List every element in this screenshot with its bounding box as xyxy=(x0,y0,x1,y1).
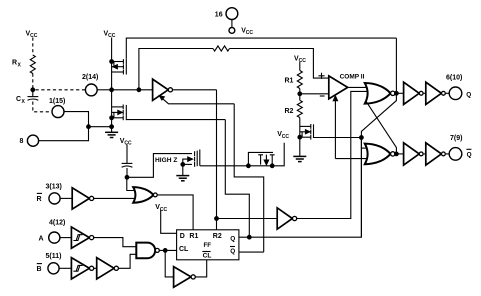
svg-text:5(11): 5(11) xyxy=(46,253,62,260)
svg-text:CC: CC xyxy=(246,30,254,36)
svg-text:8: 8 xyxy=(20,138,24,145)
svg-text:2(14): 2(14) xyxy=(82,74,98,81)
svg-text:A: A xyxy=(39,236,44,243)
svg-text:C: C xyxy=(16,96,21,103)
svg-text:1(15): 1(15) xyxy=(49,98,65,105)
svg-text:CC: CC xyxy=(30,33,38,39)
svg-text:Q: Q xyxy=(467,152,472,159)
svg-text:7(9): 7(9) xyxy=(450,135,462,142)
svg-text:6(10): 6(10) xyxy=(446,75,462,82)
svg-text:4(12): 4(12) xyxy=(49,220,65,227)
svg-text:R1: R1 xyxy=(189,233,198,240)
svg-text:CC: CC xyxy=(282,134,290,140)
svg-text:Q: Q xyxy=(230,235,235,242)
svg-text:R2: R2 xyxy=(285,108,294,115)
svg-text:R2: R2 xyxy=(213,233,222,240)
svg-text:CL: CL xyxy=(203,252,212,259)
svg-text:Q: Q xyxy=(466,92,471,99)
svg-text:3(13): 3(13) xyxy=(46,183,62,190)
svg-text:R: R xyxy=(37,196,42,203)
svg-text:COMP II: COMP II xyxy=(340,73,365,80)
svg-text:CC: CC xyxy=(124,141,132,147)
svg-text:16: 16 xyxy=(215,12,223,19)
svg-text:HIGH Z: HIGH Z xyxy=(155,157,177,164)
svg-text:R1: R1 xyxy=(285,77,294,84)
svg-text:B: B xyxy=(37,266,42,273)
svg-text:Q: Q xyxy=(230,248,235,255)
svg-text:R: R xyxy=(12,60,17,67)
svg-text:FF: FF xyxy=(204,242,212,249)
svg-text:CL: CL xyxy=(179,246,189,253)
svg-text:D: D xyxy=(180,233,185,240)
